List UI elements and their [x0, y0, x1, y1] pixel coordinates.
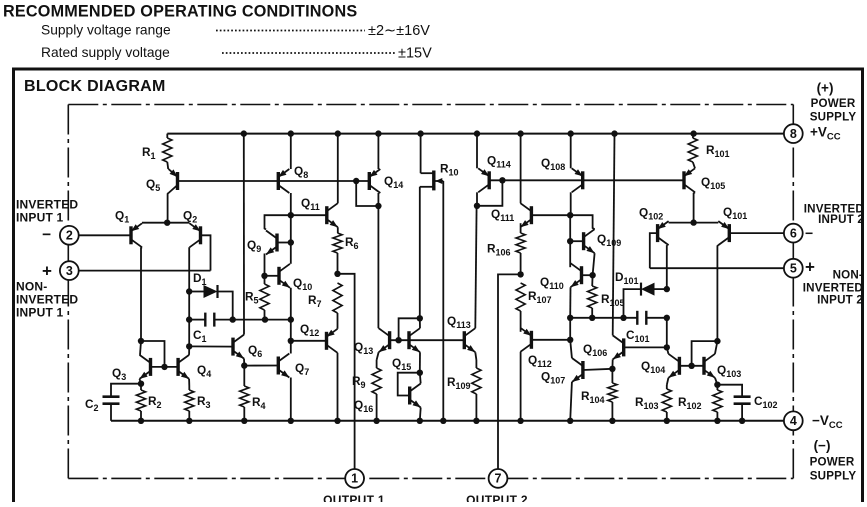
svg-text:−: −: [805, 225, 813, 241]
junction: mirror node: [138, 338, 144, 344]
transistor Q8 (PNP): [277, 172, 280, 190]
wire: Q10 emitter down to gain node: [290, 288, 292, 320]
resistor R107: [516, 283, 525, 311]
capacitor C102: [717, 385, 742, 397]
capacitor C1: [188, 292, 190, 347]
junction: Q106 emitter / Q107 base / R104: [609, 366, 615, 372]
svg-text:POWER: POWER: [810, 456, 855, 469]
resistor R4: [240, 386, 249, 407]
svg-text:±15V: ±15V: [398, 46, 432, 62]
resistor R7: [333, 283, 342, 313]
svg-text:INPUT 1: INPUT 1: [16, 211, 64, 225]
pin 3 (non-inverting input 1): [60, 261, 79, 280]
transistor Q2 (PNP): [199, 226, 202, 244]
junction: Q114 collector node: [474, 203, 480, 209]
junction: D1 anode: [186, 288, 192, 294]
junction: Q104 collector / Q106 base: [664, 344, 670, 350]
wire: Q103/Q104 base tie: [679, 365, 704, 367]
wire: Q102 collector to D101 anode: [666, 245, 668, 289]
wire: Q7 collector up: [290, 341, 292, 354]
svg-text:±2∼±16V: ±2∼±16V: [368, 23, 430, 39]
JFET R10: [420, 134, 422, 174]
wire: Q112 base: [531, 339, 570, 341]
junction: R10 source / Q15 collector: [417, 315, 423, 321]
resistor R9: [372, 368, 381, 394]
wire: Q10 collector up: [290, 263, 292, 265]
svg-text:Supply voltage range: Supply voltage range: [41, 23, 171, 38]
svg-text:SUPPLY: SUPPLY: [810, 470, 857, 483]
junction: R2 top / C2: [138, 381, 144, 387]
transistor Q4 (NPN): [176, 358, 179, 376]
wire: output 2 tap to pin 7: [498, 274, 521, 478]
wire: Q9 base to column: [277, 242, 291, 244]
wire: Q110 base: [582, 274, 593, 276]
wire: pin 5 to Q102 base node: [650, 267, 794, 269]
wire: Q114 base loop: [477, 180, 502, 206]
wire: Q113 emitter to R109: [475, 352, 476, 360]
wire: Q107 emitter to -Vcc: [570, 382, 572, 421]
transistor Q106 (NPN): [622, 338, 625, 356]
wire: gain node rail (C1 to Q10 emitter column): [233, 319, 291, 321]
svg-text:+: +: [42, 262, 52, 281]
transistor Q15 (NPN diode-connected): [407, 331, 410, 349]
svg-text:INPUT 1: INPUT 1: [16, 306, 64, 320]
wire: Q9 collector loop: [265, 215, 291, 229]
svg-text:INPUT 2: INPUT 2: [817, 294, 863, 307]
wire: Q6 base from Q4 collector node: [189, 345, 233, 347]
junction: Q14 collector node: [375, 203, 381, 209]
wire: pin 2 to Q1 base: [69, 234, 131, 236]
junction: C1 right: [230, 316, 236, 322]
wire: Q106 base: [624, 346, 667, 348]
wire: Q3 emitter to R2 top: [140, 379, 142, 384]
wire: Q15 emitter down: [419, 352, 421, 373]
pin 2 (inverting input 1): [60, 226, 79, 245]
wire: gain node down to Q12 base node: [290, 320, 292, 341]
svg-text:INVERTED: INVERTED: [16, 293, 78, 307]
wire: Q103 base loop: [692, 341, 718, 366]
resistor R103: [662, 389, 671, 412]
transistor Q5 (PNP): [176, 172, 179, 190]
svg-text:2: 2: [66, 229, 73, 243]
wire: Q109 collector loop: [570, 215, 594, 229]
wire: gain node rail 2: [570, 317, 638, 319]
wire: Q16 emitter to -Vcc: [419, 408, 422, 421]
transistor Q112 (PNP): [530, 331, 533, 349]
wire: Q11 base: [291, 214, 327, 216]
wire: Q104 emitter to R103: [667, 378, 669, 385]
transistor Q109 (NPN): [582, 232, 585, 250]
wire: Q107 collector up: [570, 340, 572, 358]
wire: Q15 collector loop: [399, 318, 420, 340]
svg-text:+: +: [805, 258, 815, 277]
transistor Q111 (NPN): [530, 206, 533, 224]
wire: Q10 base: [265, 275, 280, 277]
junction: Q112 base / Q107 collector: [567, 337, 573, 343]
wire: column Q108C-Q110C: [569, 215, 571, 267]
wire: Q6 collector to +Vcc: [243, 134, 245, 335]
wire: bias line Q5-Q8-Q14 bases: [178, 180, 370, 182]
wire: Q1-Q2 common emitters: [142, 222, 190, 224]
svg-text:(+): (+): [817, 81, 834, 96]
junction: C1 left: [186, 316, 192, 322]
resistor R105: [591, 275, 593, 286]
wire: Q8 collector to mirror node: [290, 193, 292, 215]
wire: Q2 collector down to D1 anode: [188, 247, 190, 291]
transistor Q16 (NPN diode-connected): [408, 387, 411, 405]
wire: -Vcc bottom rail: [111, 420, 784, 422]
wire: Q14 base loop: [356, 181, 378, 206]
resistor R104: [608, 383, 617, 402]
transistor Q107 (NPN): [581, 361, 584, 379]
wire: Q101 collector down to Q103 mirror: [716, 245, 719, 341]
transistor Q110 (NPN): [580, 266, 583, 284]
wire: Q105 collector to input pair 2 emitters: [694, 192, 695, 222]
junction: D101 anode: [664, 286, 670, 292]
wire: Q3/Q4 base tie: [151, 366, 179, 368]
transistor Q101 (PNP): [728, 224, 731, 242]
svg-text:5: 5: [790, 262, 797, 276]
junction: mirror node 2: [714, 338, 720, 344]
junction: Q6 emitter / Q7 base / R4: [241, 362, 247, 368]
svg-text:7: 7: [495, 472, 502, 486]
wire: Q13/Q15/Q113 base line: [390, 339, 465, 341]
wire: Q106 emitter down: [611, 359, 613, 368]
junction: output bias node 2 (R106/R107): [517, 271, 523, 277]
pin 6 (inverting input 2): [784, 224, 803, 243]
transistor Q103 (NPN diode-connected): [702, 357, 705, 375]
capacitor C101: [636, 311, 638, 325]
wire: Q107 base: [583, 369, 613, 370]
resistor R5: [264, 276, 266, 284]
junction: Q109 emitter / Q110 base / R105: [589, 272, 595, 278]
wire: D101 anode column to Q104 node: [666, 318, 668, 348]
pin 1 (output 1): [345, 469, 364, 488]
svg-text:SUPPLY: SUPPLY: [810, 111, 857, 124]
wire: Q114 collector down: [476, 192, 478, 206]
transistor Q9 (NPN): [275, 234, 278, 252]
junction: output bias node (R6/R7): [334, 271, 340, 277]
wire: Q2 base loop: [201, 235, 211, 270]
svg-text:NON-: NON-: [833, 269, 863, 282]
svg-text:4: 4: [790, 414, 797, 428]
svg-text:INVERTED: INVERTED: [16, 198, 78, 212]
transistor Q1 (PNP): [129, 226, 132, 244]
wire: Q3 collector: [140, 341, 141, 355]
IC package boundary (chain line) bottom: [68, 477, 793, 479]
wire: Q16 collector: [419, 373, 422, 384]
wire: gain node 2 down to Q112 base node: [569, 318, 571, 340]
wire: Q14 collector down: [377, 193, 379, 206]
junction: Q14 base node on bias line: [353, 178, 359, 184]
transistor Q7 (NPN): [277, 357, 280, 375]
svg-text:INPUT 2: INPUT 2: [818, 213, 864, 226]
wire: Q4 emitter to R3: [188, 379, 190, 386]
resistor R109: [472, 368, 481, 394]
junction: input pair 2 emitters: [690, 219, 696, 225]
diode D101: [655, 288, 667, 290]
svg-text:1: 1: [351, 472, 358, 486]
wire: Q13 collector diag join: [377, 327, 379, 329]
transistor Q114 (PNP diode-connected): [488, 171, 491, 189]
wire: Q109 emitter down: [593, 253, 595, 275]
wire: Q112 collector to -Vcc: [520, 352, 522, 421]
junction: C101 right: [664, 315, 670, 321]
resistor R6: [337, 227, 339, 233]
wire: Q110 emitter to gain node 2: [569, 287, 571, 318]
transistor Q11 (NPN): [325, 206, 328, 224]
wire: Q113 collector up to Q114 node: [475, 206, 476, 328]
svg-text:NON-: NON-: [16, 280, 47, 294]
svg-text:8: 8: [790, 127, 797, 141]
wire: Q109 base: [570, 240, 583, 242]
wire: Q3 base loop to collector: [141, 341, 165, 367]
transistor Q113 (NPN): [463, 331, 466, 349]
junction: Q108 collector / Q111 base / Q109: [567, 212, 573, 218]
wire: Q103 collector: [715, 341, 717, 354]
junction: R102 top / C102: [714, 382, 720, 388]
pin 5 (non-inverting input 2): [784, 259, 803, 278]
junction: D101 cathode column at gain node 2: [620, 315, 626, 321]
junction: Q9 emitter / Q10 base / R5 top: [261, 273, 267, 279]
junction: Q13/Q15 base node: [395, 337, 401, 343]
junction: Q103/Q104 bases: [688, 363, 694, 369]
wire: Q6 emitter to Q7 base node: [243, 359, 245, 366]
wire: Q104 collector up: [667, 347, 669, 353]
junction: gain node 2 left: [567, 315, 573, 321]
junctions on +Vcc rail: [241, 130, 247, 136]
wire: bias line 2 Q114-Q108-Q105: [489, 179, 684, 181]
junction: Q3/Q4 bases: [161, 364, 167, 370]
transistor Q102 (PNP): [656, 224, 659, 242]
resistor R106: [520, 223, 522, 233]
wire: Q111 base: [531, 214, 570, 216]
IC package boundary (chain line) right: [792, 105, 794, 479]
wire: column Q8C to Q10 collector: [290, 215, 292, 263]
wire: Q5 collector to input pair emitters: [167, 193, 170, 223]
junction: Q15 emitter / Q16 node: [417, 370, 423, 376]
wire: +Vcc top rail: [167, 133, 784, 135]
transistor Q12 (PNP): [325, 332, 328, 350]
IC package boundary (chain line) left: [67, 105, 69, 479]
wire: pin 6 to Q101 base: [729, 232, 793, 234]
junction: Q8 collector / Q9 / Q11 node: [288, 212, 294, 218]
wire: Q111 collector to +Vcc: [520, 134, 522, 204]
diode D1: [189, 291, 203, 293]
wire: Q11 collector to +Vcc: [337, 134, 339, 204]
junction: input pair emitters: [164, 220, 170, 226]
svg-text:OUTPUT 1: OUTPUT 1: [323, 493, 385, 502]
resistor R102: [713, 390, 722, 412]
wire: Q14 emitter to +Vcc: [377, 134, 379, 169]
junction: R105 bottom: [589, 315, 595, 321]
junction: gain node at Q10 emitter column: [288, 316, 294, 322]
wire: Q16 base loop: [398, 373, 420, 396]
pin 7 (output 2): [489, 469, 508, 488]
transistor Q108 (PNP): [581, 171, 584, 189]
wire: output 1 tap to pin 1: [338, 274, 355, 479]
wire: Q4 collector up: [188, 346, 190, 355]
wire: Q14 collector to Q13 collector: [377, 206, 379, 328]
junction: Q109 base node: [567, 238, 573, 244]
svg-text:6: 6: [790, 226, 797, 240]
transistor Q104 (NPN): [678, 357, 681, 375]
wire: Q12 collector to -Vcc: [337, 353, 339, 421]
transistor Q14 (PNP diode-connected): [368, 172, 371, 190]
pin 4 (-Vcc): [784, 411, 803, 430]
wire: Q114 emitter to +Vcc: [476, 134, 478, 169]
svg-text:−: −: [42, 227, 51, 244]
wire: Q1 collector down to Q3 mirror: [141, 247, 142, 341]
resistor R3: [185, 390, 194, 411]
capacitor C2: [111, 384, 141, 397]
svg-text:OUTPUT 2: OUTPUT 2: [466, 493, 528, 502]
svg-text:POWER: POWER: [811, 97, 856, 110]
transistor Q3 (NPN diode-connected): [149, 358, 152, 376]
wire: Q7 emitter to -Vcc: [290, 378, 292, 421]
svg-text:RECOMMENDED OPERATING CONDIT: RECOMMENDED OPERATING CONDITINONS: [3, 3, 357, 21]
resistor R1: [166, 134, 168, 138]
svg-text:(−): (−): [814, 438, 831, 453]
wire: Q12 base: [291, 340, 327, 342]
transistor Q6 (NPN): [231, 338, 234, 356]
wire: Q9 emitter down to Q10 base node: [264, 254, 266, 276]
resistor R2: [136, 390, 145, 411]
wire: Q103 emitter down: [715, 378, 717, 385]
wire: Q101-Q102 common emitters: [669, 222, 719, 224]
wire: Q108 emitter to +Vcc: [570, 134, 572, 169]
transistor Q105 (PNP): [682, 171, 685, 189]
junction: Q114 base on bias line 2: [499, 177, 505, 183]
svg-text:3: 3: [66, 264, 73, 278]
resistor R101: [692, 134, 695, 138]
wire: Q106 collector to +Vcc: [613, 134, 615, 336]
svg-text:BLOCK DIAGRAM: BLOCK DIAGRAM: [24, 78, 166, 95]
pin 8 (+Vcc): [784, 124, 803, 143]
wire: Q102 base loop: [650, 233, 658, 268]
wire: Q7 base: [244, 365, 278, 367]
IC package boundary (chain line) top: [68, 104, 793, 106]
svg-text:Rated supply voltage: Rated supply voltage: [41, 45, 170, 60]
wire: Q108 collector down: [570, 192, 572, 215]
wire: Q8 emitter to +Vcc: [290, 134, 292, 169]
junction: Q12 base / Q7 collector: [288, 338, 294, 344]
junctions on -Vcc rail: [138, 418, 144, 424]
wire: pin 3 to Q2 base node: [69, 270, 210, 272]
junction: Q9 base node: [288, 239, 294, 245]
transistor Q10 (NPN): [277, 267, 280, 285]
transistor Q13 (NPN): [388, 331, 391, 349]
junction: Q4 collector / Q6 base / C1-D1 column: [186, 343, 192, 349]
wire: Q13 emitter to R9: [377, 352, 379, 360]
junction: R5 bottom at gain node: [262, 316, 268, 322]
